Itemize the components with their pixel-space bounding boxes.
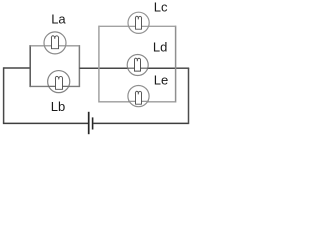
wire right riser [188, 68, 190, 124]
lamp Ld [127, 55, 148, 76]
lamp Lc [128, 12, 149, 33]
svg-text:Lc: Lc [154, 0, 168, 15]
left group right rail [78, 45, 80, 87]
svg-text:Le: Le [154, 72, 168, 87]
lamp La [44, 32, 66, 54]
wire branch La [30, 45, 79, 47]
wire left tap (node to left parallel group) [4, 67, 31, 69]
wire branch Lb [30, 85, 79, 87]
svg-text:Lb: Lb [51, 99, 65, 114]
wire branch Lc [99, 25, 176, 27]
lamp Lb [48, 71, 70, 93]
svg-text:Ld: Ld [153, 39, 167, 54]
battery long plate (left) [88, 112, 90, 134]
wire right tap (right parallel group to riser) [176, 67, 190, 69]
lamp Le [128, 86, 149, 107]
wire bottom left (to battery) [3, 122, 88, 124]
wire middle connector + branch Ld [79, 67, 175, 69]
right group right rail [175, 26, 177, 103]
right group left rail [98, 26, 100, 103]
left group left rail [29, 45, 31, 87]
battery short plate (right) [92, 117, 94, 129]
svg-text:La: La [51, 12, 66, 27]
wire bottom right (battery to right riser) [93, 122, 188, 124]
wire left drop (left side down to battery row) [3, 67, 5, 123]
wire branch Le [99, 101, 176, 103]
